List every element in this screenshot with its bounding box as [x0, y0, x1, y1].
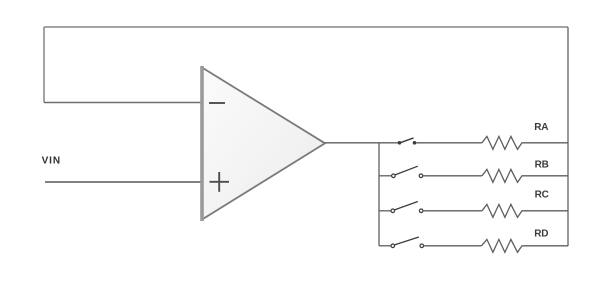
resistor RA: [482, 136, 568, 149]
wire VIN input: [45, 181, 202, 183]
resistor RC: [482, 204, 568, 217]
svg-text:RD: RD: [534, 228, 548, 239]
switch S3 (RC row, open): [391, 202, 423, 213]
label VIN: [42, 156, 61, 167]
label RA: [534, 122, 548, 133]
switch S1 (RA row, closed contacts): [398, 138, 417, 145]
wire feedback left vertical: [43, 27, 45, 103]
wire inverting input: [44, 102, 202, 104]
wire bus to S4: [379, 245, 391, 247]
label RC: [535, 190, 549, 201]
wire S3 to RC: [423, 210, 482, 212]
label RB: [535, 160, 549, 171]
svg-text:RA: RA: [534, 122, 548, 133]
wire S1 to RA: [416, 142, 482, 144]
wire feedback right vertical: [567, 27, 569, 246]
resistor RB: [482, 169, 568, 182]
label RD: [534, 228, 548, 239]
wire S4 to RD: [424, 245, 482, 247]
switch S2 (RB row, open): [392, 166, 423, 177]
op-amp U1: [202, 66, 325, 221]
wire bus to S3: [379, 210, 391, 212]
switch S4 (RD row, open): [391, 237, 424, 248]
wire S2 to RB: [423, 175, 482, 177]
svg-text:RC: RC: [535, 190, 549, 201]
svg-text:VIN: VIN: [42, 156, 61, 167]
wire op-amp output: [325, 142, 399, 144]
svg-text:RB: RB: [535, 160, 549, 171]
wire bus vertical: [378, 143, 380, 246]
resistor RD: [482, 239, 569, 252]
wire bus to S2: [379, 175, 392, 177]
wire feedback top: [44, 26, 568, 28]
